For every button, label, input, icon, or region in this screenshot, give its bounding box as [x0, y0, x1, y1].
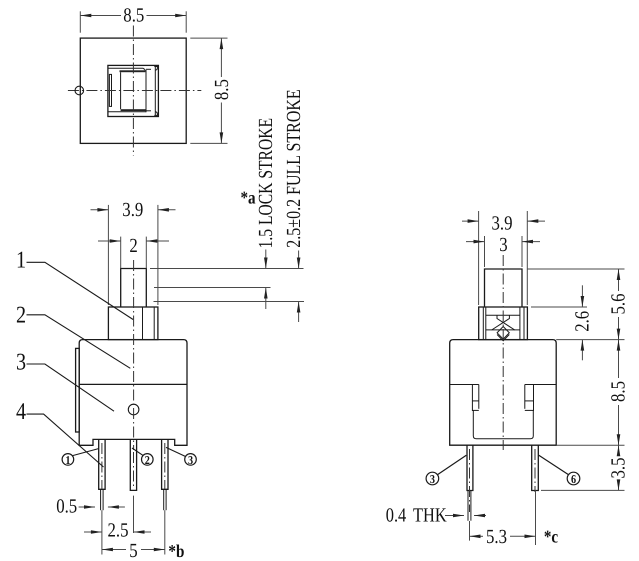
- svg-text:0.5: 0.5: [56, 496, 77, 518]
- svg-text:3: 3: [16, 350, 26, 376]
- svg-text:5.3: 5.3: [486, 526, 507, 548]
- svg-text:5: 5: [129, 540, 137, 561]
- svg-text:2: 2: [145, 453, 150, 467]
- svg-text:8.5: 8.5: [123, 5, 144, 27]
- svg-text:3: 3: [499, 234, 507, 256]
- svg-text:2: 2: [16, 303, 26, 329]
- svg-text:4: 4: [16, 399, 26, 425]
- svg-text:8.5: 8.5: [211, 79, 233, 100]
- svg-text:*c: *c: [544, 527, 558, 547]
- svg-text:3.5: 3.5: [608, 458, 630, 479]
- svg-text:1.5 LOCK STROKE: 1.5 LOCK STROKE: [255, 118, 277, 248]
- svg-text:2.5±0.2 FULL STROKE: 2.5±0.2 FULL STROKE: [283, 89, 305, 247]
- svg-text:3.9: 3.9: [492, 212, 513, 234]
- svg-text:*a: *a: [240, 188, 255, 208]
- svg-text:3.9: 3.9: [122, 199, 143, 221]
- svg-text:1: 1: [65, 453, 70, 467]
- svg-text:1: 1: [16, 248, 26, 274]
- svg-text:6: 6: [571, 472, 576, 486]
- svg-text:*b: *b: [168, 541, 184, 561]
- svg-text:3: 3: [430, 472, 435, 486]
- svg-text:2: 2: [129, 235, 137, 257]
- svg-text:2.5: 2.5: [108, 520, 129, 542]
- svg-text:3: 3: [188, 453, 193, 467]
- svg-text:8.5: 8.5: [608, 381, 630, 402]
- svg-text:0.4: 0.4: [386, 505, 407, 527]
- svg-text:5.6: 5.6: [608, 294, 630, 315]
- svg-text:2.6: 2.6: [571, 311, 593, 332]
- svg-text:THK: THK: [413, 505, 447, 527]
